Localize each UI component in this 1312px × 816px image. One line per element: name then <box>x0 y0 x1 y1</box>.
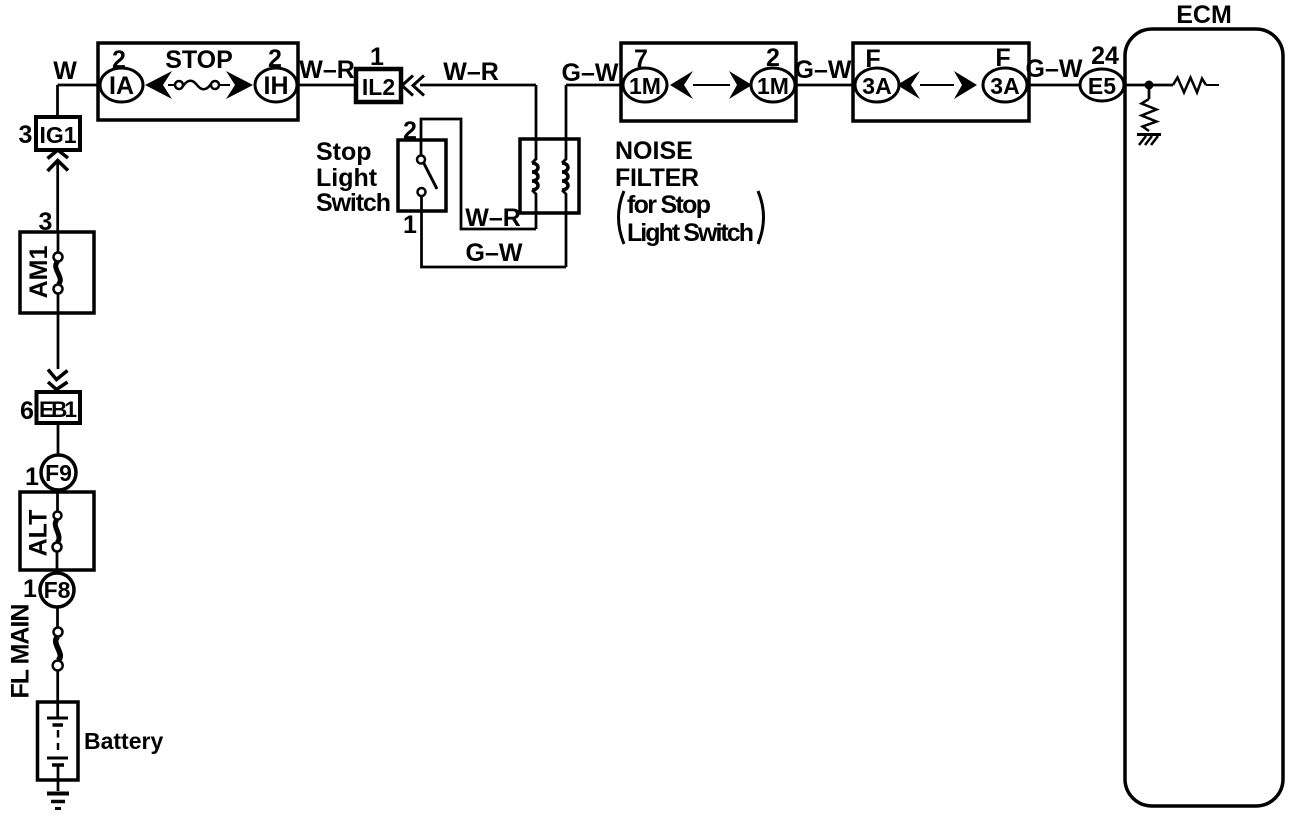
arrowhead right (3A) <box>954 71 977 99</box>
svg-text:1M: 1M <box>757 73 789 99</box>
svg-text:G–W: G–W <box>466 239 523 267</box>
chevron arrows up (below IG1) <box>48 150 69 159</box>
fuse ALT <box>54 512 62 520</box>
svg-text:24: 24 <box>1091 42 1119 70</box>
svg-text:Battery: Battery <box>84 728 163 754</box>
node: junction dot <box>1145 81 1154 90</box>
wire out of fuse ALT <box>56 552 59 574</box>
svg-text:for Stop: for Stop <box>627 191 711 219</box>
chevron arrows down (above EB1) <box>48 370 68 380</box>
wire: W-R vertical through noise filter left coil <box>532 85 536 163</box>
wire: battery to ground <box>57 765 60 791</box>
svg-text:IH: IH <box>264 72 289 100</box>
svg-text:3: 3 <box>19 121 33 149</box>
svg-text:1: 1 <box>23 575 37 603</box>
connector F9 <box>41 455 76 490</box>
big parens around (for Stop / Light Switch) <box>619 191 625 244</box>
junction block box (STOP fuse) <box>98 43 298 120</box>
junction block box (3A) <box>853 43 1029 121</box>
connector EB1 <box>37 392 81 423</box>
junction block box (1M) <box>621 43 796 121</box>
connector 1M left <box>623 68 667 102</box>
wire: W feed top-left horizontal <box>58 84 101 87</box>
svg-text:FL MAIN: FL MAIN <box>7 604 35 699</box>
svg-text:NOISE: NOISE <box>615 137 693 165</box>
fuse block box ALT <box>20 492 94 570</box>
connector IA <box>100 68 143 102</box>
connector 3A left <box>855 68 899 102</box>
arrowhead right (IH side) <box>226 71 253 99</box>
wire: switch pin1 down and over to right coil (G-W) <box>422 196 567 267</box>
connector IG1 <box>36 117 80 150</box>
label NOISE FILTER <box>615 137 754 247</box>
chevron arrows at IL2 <box>402 76 413 96</box>
wire: 1M to 3A (G-W) <box>796 84 853 87</box>
wire out of fuse AM1 <box>57 294 60 370</box>
svg-text:STOP: STOP <box>165 46 233 74</box>
inductor L1 (noise filter left coil) <box>532 163 538 190</box>
wire: switch pin2 up and over to coil (W-R) <box>421 119 536 229</box>
svg-text:Switch: Switch <box>316 189 391 217</box>
connector E5 <box>1080 69 1124 101</box>
wire: F8 down to fusible link <box>56 607 59 628</box>
svg-text:F8: F8 <box>44 577 71 603</box>
resistor R (vertical, to ground) <box>1142 99 1157 131</box>
resistor R (horizontal, pull-up) <box>1173 78 1206 93</box>
fuse block box AM1 <box>20 232 94 313</box>
fuse STOP symbol <box>175 81 183 89</box>
svg-text:1: 1 <box>403 211 417 239</box>
wire after resistor <box>1206 84 1219 86</box>
svg-text:Light: Light <box>316 164 378 192</box>
svg-text:FILTER: FILTER <box>615 164 699 192</box>
svg-text:IA: IA <box>109 72 134 100</box>
noise filter box <box>520 139 579 213</box>
arrowhead left (IA side) <box>145 71 172 99</box>
connector IH <box>255 68 297 102</box>
svg-text:6: 6 <box>20 397 34 425</box>
wire into fuse AM1 <box>57 232 60 253</box>
wire: 3A to E5 (G-W) <box>1029 84 1080 87</box>
ECM box <box>1125 29 1283 806</box>
svg-text:3A: 3A <box>862 73 891 99</box>
svg-text:G–W: G–W <box>1026 55 1083 83</box>
inductor L2 (noise filter right coil) <box>562 163 568 190</box>
connector 3A right <box>983 68 1027 102</box>
svg-text:Light Switch: Light Switch <box>627 219 754 247</box>
wire fuse to arrow <box>219 84 230 86</box>
svg-text:IL2: IL2 <box>362 74 395 100</box>
switch contact pin1 <box>418 188 426 196</box>
switch contact pin2 <box>417 156 425 164</box>
wire: G-W corner up to top <box>562 85 566 163</box>
svg-text:W–R: W–R <box>443 58 499 86</box>
svg-text:G–W: G–W <box>795 56 852 84</box>
svg-text:W: W <box>53 57 77 85</box>
switch lever <box>424 163 438 190</box>
svg-text:W–R: W–R <box>465 204 521 232</box>
wire between arrows (3A) <box>920 84 954 86</box>
svg-text:ECM: ECM <box>1176 1 1232 29</box>
svg-text:ALT: ALT <box>25 510 53 557</box>
connector IL2 <box>356 69 401 102</box>
wire: W feed vertical to IG1 <box>56 85 59 117</box>
svg-text:Stop: Stop <box>316 138 372 166</box>
label Stop Light Switch <box>316 138 391 217</box>
fuse AM1 <box>54 253 63 262</box>
svg-text:IG1: IG1 <box>39 122 76 148</box>
svg-text:F9: F9 <box>45 460 72 486</box>
wire into fuse ALT <box>56 492 59 512</box>
svg-text:AM1: AM1 <box>25 246 53 299</box>
svg-text:1M: 1M <box>629 73 661 99</box>
wire: EB1 to F9 <box>57 423 60 455</box>
arrowhead left (3A) <box>897 71 920 99</box>
connector F8 <box>40 573 74 607</box>
svg-text:3A: 3A <box>990 73 1019 99</box>
battery plates <box>47 717 68 720</box>
ground (battery) <box>47 792 69 796</box>
wire: G-W top horizontal to 1M <box>566 84 623 87</box>
wire: E5 into ECM <box>1124 84 1173 87</box>
svg-text:EB1: EB1 <box>39 397 77 422</box>
fusible link FL MAIN <box>54 628 63 637</box>
wire: fusible link to battery <box>56 671 59 719</box>
svg-text:2: 2 <box>403 117 417 145</box>
wire: IH to IL2 (W-R) <box>298 84 356 87</box>
arrowhead right (1M) <box>729 71 752 99</box>
battery box <box>38 702 79 780</box>
stop light switch box <box>398 140 446 211</box>
svg-text:G–W: G–W <box>562 59 619 87</box>
wire: junction down <box>1148 85 1151 99</box>
wire: IG1 chevrons down to AM1 <box>56 161 59 233</box>
connector 1M right <box>751 68 795 102</box>
wire between arrows (1M) <box>693 84 730 86</box>
svg-text:E5: E5 <box>1088 73 1116 99</box>
svg-text:W–R: W–R <box>299 56 355 84</box>
wire to fuse <box>168 84 175 86</box>
svg-text:1: 1 <box>25 463 39 491</box>
ground (inside ECM) <box>1137 133 1161 136</box>
wire: W-R from chevrons to corner <box>420 84 536 87</box>
arrowhead left (1M) <box>670 71 693 99</box>
